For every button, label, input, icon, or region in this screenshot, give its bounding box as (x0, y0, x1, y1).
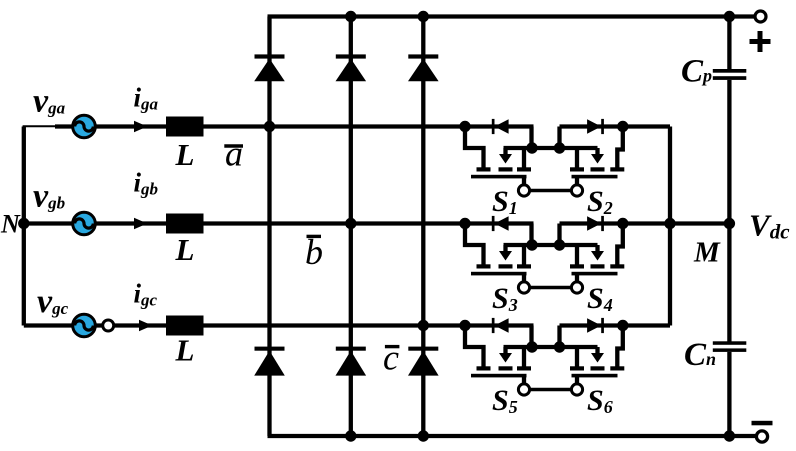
transistor S3 drain lead (465, 224, 484, 266)
inductor L phase c (166, 316, 204, 336)
junction cell a output node (617, 121, 628, 132)
junction top rail / capacitor leg (724, 11, 735, 22)
transistor S6 body contact (591, 366, 605, 370)
transistor S5 body contact (499, 366, 513, 370)
svg-text:igb: igb (134, 168, 159, 199)
junction cell b mid left (526, 239, 537, 250)
svg-text:S3: S3 (492, 282, 518, 315)
wire capacitor leg lower (727, 352, 731, 436)
transistor S1 drain contact (477, 167, 491, 171)
diode bottom leg phase b (from - rail) (336, 347, 367, 376)
wire neutral vertical N bus (22, 127, 26, 326)
label S3 (492, 282, 518, 315)
wire phase a source stub (thin) (23, 125, 57, 127)
transistor S5 gate terminal (518, 384, 529, 395)
label L phase b (175, 232, 195, 267)
wire gate link S3-S4 (529, 286, 572, 289)
label S6 (587, 384, 613, 417)
label v_gb (33, 178, 65, 215)
transistor S2 gate bar (572, 175, 618, 179)
svg-text:M: M (693, 237, 721, 269)
label M (693, 237, 721, 269)
wire capacitor leg upper (727, 17, 731, 70)
transistor S4 source lead (575, 245, 579, 266)
terminal + (positive output) (755, 11, 766, 22)
wire diode leg phase a vertical (267, 17, 271, 437)
label V_dc (749, 208, 790, 244)
transistor S6 source contact (570, 366, 584, 370)
label C_p (681, 54, 712, 90)
junction phase b / diode leg (345, 218, 356, 229)
transistor S4 drain contact (610, 264, 624, 268)
transistor S5 drain contact (477, 366, 491, 370)
transistor S2 gate lead (575, 178, 579, 186)
junction bottom rail / capacitor leg (724, 430, 735, 441)
transistor S4 drain lead (617, 224, 623, 266)
transistor S1 gate bar (471, 175, 527, 179)
svg-text:S2: S2 (587, 185, 613, 218)
label S5 (492, 384, 518, 417)
transistor S1 source lead (522, 148, 526, 169)
transistor S2 body contact (591, 167, 605, 171)
transistor S1 gate terminal (518, 185, 529, 196)
transistor S1 source contact (517, 167, 531, 171)
svg-text:vgc: vgc (37, 283, 69, 320)
transistor S5 gate bar (471, 374, 527, 378)
svg-text:S1: S1 (492, 185, 518, 218)
wire cell b right corner up (557, 224, 561, 246)
wire diode leg phase b vertical (349, 17, 353, 437)
diode top leg phase a (to + rail) (254, 54, 285, 81)
label S1 (492, 185, 518, 218)
svg-text:Cn: Cn (684, 337, 716, 373)
diode D6 (right, cell c) (587, 318, 604, 333)
terminal open circle phase c (103, 320, 114, 331)
label i_ga (134, 83, 159, 114)
wire gate link S5-S6 (529, 388, 572, 391)
junction top rail / leg b (345, 11, 356, 22)
wire cell b left corner down (529, 224, 533, 248)
wire top DC rail (+) (268, 14, 756, 18)
junction bottom rail / leg b (345, 430, 356, 441)
diode D5 (left, cell c) (492, 318, 509, 333)
svg-text:L: L (175, 232, 195, 267)
label i_gb (134, 168, 159, 199)
current arrow i_ga (134, 121, 147, 132)
source v_gb AC source (73, 212, 96, 235)
wire gate link S1-S2 (529, 189, 572, 192)
label L phase c (175, 333, 195, 368)
wire phase b horizontal (24, 221, 534, 225)
label + (plus sign) (750, 31, 771, 52)
transistor S3 source lead (522, 245, 526, 266)
svg-text:a: a (225, 134, 243, 174)
transistor S1 gate lead (522, 178, 526, 186)
terminal - (negative output) (756, 431, 767, 442)
svg-text:L: L (175, 137, 195, 172)
wire cell a right corner up (557, 127, 561, 149)
wire cell a common-source mid (504, 146, 598, 150)
wire cell c common-source mid (504, 345, 598, 349)
junction cell c mid right (554, 341, 565, 352)
transistor S2 drain lead (617, 127, 623, 169)
junction cell a mid left (526, 142, 537, 153)
label L phase a (175, 137, 195, 172)
transistor S4 gate lead (575, 275, 579, 283)
junction top rail / leg c (418, 11, 429, 22)
label N (0, 210, 21, 239)
junction bottom rail / leg c (418, 430, 429, 441)
transistor S4 gate bar (572, 272, 618, 276)
node c̄ label (383, 338, 399, 378)
node N junction dot (18, 218, 29, 229)
transistor S2 source contact (570, 167, 584, 171)
wire cell c left corner down (529, 326, 533, 350)
wire cell c output horizontal (560, 323, 671, 327)
label v_ga (33, 82, 66, 119)
capacitor C_n (713, 341, 747, 352)
inductor L phase b (166, 214, 204, 234)
diode D2 (right, cell a) (587, 119, 604, 134)
diode top leg phase b (to + rail) (336, 54, 367, 81)
wire cell b output horizontal (560, 221, 730, 225)
current arrow i_gc (139, 320, 152, 331)
transistor S1 drain lead (465, 127, 484, 169)
diode bottom leg phase a (from - rail) (254, 347, 285, 376)
label C_n (684, 337, 716, 373)
svg-text:Cp: Cp (681, 54, 712, 90)
wire cell a left corner down (529, 127, 533, 151)
transistor S6 gate terminal (571, 384, 582, 395)
svg-text:iga: iga (134, 83, 159, 114)
transistor S3 body arrow (499, 245, 512, 261)
transistor S5 source lead (522, 347, 526, 368)
diode bottom leg phase c (from - rail) (408, 347, 439, 376)
transistor S5 source contact (517, 366, 531, 370)
transistor S1 body arrow (499, 148, 512, 164)
transistor S6 drain contact (610, 366, 624, 370)
transistor S2 body arrow (591, 148, 604, 164)
transistor S6 gate lead (575, 377, 579, 385)
label v_gc (37, 283, 69, 320)
svg-text:c: c (383, 338, 399, 378)
wire M bus vertical (668, 127, 672, 326)
diode D3 (left, cell b) (492, 216, 509, 231)
svg-text:N: N (0, 210, 21, 239)
wire cell a output horizontal (560, 124, 671, 128)
transistor S4 gate terminal (571, 282, 582, 293)
transistor S3 gate bar (471, 272, 527, 276)
wire phase c horizontal (24, 323, 534, 327)
transistor S4 body arrow (591, 245, 604, 261)
junction cell b mid right (554, 239, 565, 250)
label - (minus sign) (752, 421, 773, 426)
svg-text:L: L (175, 333, 195, 368)
transistor S1 body contact (499, 167, 513, 171)
svg-text:vga: vga (33, 82, 66, 119)
transistor S3 source contact (517, 264, 531, 268)
node b̄ label (305, 232, 323, 272)
transistor S3 body contact (499, 264, 513, 268)
diode D4 (right, cell b) (587, 216, 604, 231)
transistor S5 drain lead (465, 326, 484, 368)
junction cell c output node (617, 320, 628, 331)
transistor S4 source contact (570, 264, 584, 268)
svg-text:Vdc: Vdc (749, 208, 790, 244)
transistor S6 drain lead (617, 326, 623, 368)
svg-text:S4: S4 (587, 282, 613, 315)
capacitor C_p (713, 69, 747, 80)
junction phase c / diode leg (418, 320, 429, 331)
junction M bus / phase b output (664, 218, 675, 229)
label i_gc (134, 278, 158, 309)
source v_ga AC source (73, 115, 96, 138)
junction phase b cell input node (459, 218, 470, 229)
source v_gc AC source (73, 314, 96, 337)
junction phase a / diode leg (264, 121, 275, 132)
junction cell a mid right (554, 142, 565, 153)
transistor S2 source lead (575, 148, 579, 169)
node ā label (224, 134, 243, 174)
transistor S2 gate terminal (571, 185, 582, 196)
wire bottom DC rail (-) (268, 434, 757, 438)
label S4 (587, 282, 613, 315)
junction cell b output node (617, 218, 628, 229)
junction phase a cell input node (459, 121, 470, 132)
inductor L phase a (166, 117, 204, 137)
transistor S3 drain contact (477, 264, 491, 268)
svg-text:igc: igc (134, 278, 158, 309)
transistor S5 gate lead (522, 377, 526, 385)
transistor S5 body arrow (499, 347, 512, 363)
transistor S6 body arrow (591, 347, 604, 363)
wire phase a horizontal (55, 124, 534, 128)
wire cell b common-source mid (504, 243, 598, 247)
junction phase c cell input node (459, 320, 470, 331)
wire cell c right corner up (557, 326, 561, 348)
svg-text:vgb: vgb (33, 178, 65, 215)
transistor S3 gate terminal (518, 282, 529, 293)
transistor S3 gate lead (522, 275, 526, 283)
label S2 (587, 185, 613, 218)
transistor S2 drain contact (610, 167, 624, 171)
current arrow i_gb (134, 218, 147, 229)
diode top leg phase c (to + rail) (408, 54, 439, 81)
transistor S6 source lead (575, 347, 579, 368)
junction midpoint M on capacitor leg (724, 218, 735, 229)
junction cell c mid left (526, 341, 537, 352)
wire diode leg phase c vertical (421, 17, 425, 437)
transistor S6 gate bar (572, 374, 618, 378)
transistor S4 body contact (591, 264, 605, 268)
svg-text:S6: S6 (587, 384, 613, 417)
diode D1 (left, cell a) (492, 119, 509, 134)
svg-text:S5: S5 (492, 384, 518, 417)
wire capacitor leg middle (727, 80, 731, 342)
